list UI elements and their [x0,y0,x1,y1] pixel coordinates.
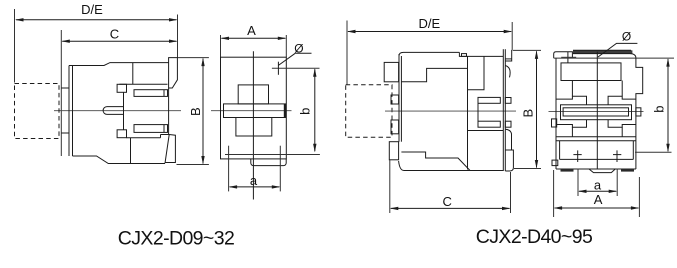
bottom inner box [559,141,561,160]
svg-text:a: a [594,177,602,192]
D/E extension lines (right) [346,21,348,85]
lower inner rect [236,118,272,137]
dimension B (left) line [201,58,204,165]
dimension D/E (left) line [15,18,178,21]
coil terminal block upper-left [384,62,398,81]
lower stair left [571,127,573,137]
upper stair left [571,81,573,97]
top shaded band [573,50,632,53]
band line lower [556,140,636,142]
b bottom extension line [225,154,320,156]
lower terminal strip [134,125,168,133]
terminal inner vertical [477,103,479,121]
clip screw lower [505,121,511,127]
upper strip divider [163,90,165,97]
extension line left of C / back plate edge [60,30,62,156]
bar thick right edge [284,104,286,118]
centerline through left side and front views [54,110,181,112]
A extension lines [220,35,222,57]
mounting hole tick [277,62,279,75]
front view (right) [552,43,675,172]
lower stair right [621,127,623,137]
svg-text:b: b [652,105,667,112]
inner vertical cover edge [132,63,134,85]
b bottom extension (right) [635,151,672,153]
diameter leader underline [295,52,311,54]
small top tab [462,54,467,57]
bottom feet tabs [561,169,574,172]
left small tab [552,119,557,127]
svg-text:Ø: Ø [294,42,303,56]
a extension lines (right) [577,169,579,197]
top band outline with rounded right corner [573,54,636,59]
vertical link between clamps [123,92,125,130]
small left block lower-mid [391,120,399,134]
top-left hole tick [567,52,569,63]
clip screw upper [505,98,511,104]
dimension A (right) line [554,206,640,209]
dimension A (left) line [221,37,287,40]
bottom shelf line [401,152,470,171]
upper clamp square [117,84,126,92]
rail clip bottom foot [505,150,513,171]
diameter leader diagonal [278,53,295,65]
terminal zone bottom line (right view) [468,130,503,132]
B bottom extension (right) [514,168,541,170]
bottom outline [73,156,166,164]
svg-text:Ø: Ø [622,29,631,43]
dashed mounting box (left side view) [15,84,60,139]
svg-text:B: B [188,107,203,116]
bottom hanging foot of front view [251,159,286,166]
svg-text:B: B [521,109,536,118]
bottom hole mark left [573,154,581,156]
dimension C (left) line [61,40,177,43]
hole mark for diameter leader [597,52,599,63]
back plate tick upper [61,87,69,89]
step to ear [160,135,162,138]
upper terminal strip (right view) [478,97,500,103]
top-left hole horizontal [561,56,576,58]
wide bar inner [563,108,628,116]
terminal zone top line [119,83,167,85]
a extension lines [228,146,230,192]
extension line right of D/E and C [177,15,179,58]
mounting hole mark horizontal / b top extension [272,67,320,69]
coil terminal oval [103,107,124,115]
lower strip divider [163,125,165,133]
svg-text:D/E: D/E [418,16,440,31]
outer box left edge [555,58,557,169]
center vertical line (right front view) [596,52,598,169]
centerline (right side view) [385,110,516,112]
svg-text:D/E: D/E [81,2,103,17]
wide bar outer [561,105,632,120]
top-left tab [554,52,573,58]
lower terminal strip (right view) [478,121,500,127]
band line upper [556,136,636,138]
svg-text:CJX2-D40~95: CJX2-D40~95 [476,226,593,248]
svg-text:C: C [443,194,452,209]
left lower tab [552,160,558,166]
svg-text:A: A [247,23,256,38]
dimension a (left) line [229,185,281,188]
B top extension line [178,57,209,59]
bottom outline [399,161,504,171]
back plate tick lower [61,132,69,134]
outer box bottom [556,168,636,170]
mounting plate double edge [502,49,504,171]
upper stair right [621,81,623,97]
lower clamp square [117,130,126,138]
svg-text:A: A [594,192,603,207]
extension line left of D/E [14,9,16,83]
B top extension (right) [513,49,541,51]
right small tab [636,108,641,116]
front cover vertical [467,56,469,169]
left face double edge [398,54,400,142]
upper inner rect [238,85,268,104]
front view outer box (left) [221,57,287,159]
bottom-left block [389,142,398,160]
svg-text:CJX2-D09~32: CJX2-D09~32 [118,228,234,250]
rounded top-left corner and top edge [399,52,459,56]
side view body outline (left) [61,58,177,164]
dimension a (right) line [578,190,617,193]
top step down [459,52,503,56]
front flange top-right [169,58,178,88]
C extension lines (right) [389,160,391,213]
dashed mounting box (right side view) [346,85,392,138]
svg-text:C: C [110,27,119,42]
side view body outline (right) [384,49,513,171]
rail clip lower hook curve [505,129,511,150]
dimension D/E (right) line [347,30,512,33]
dimension b (left) line [313,68,316,152]
B bottom extension line [177,164,209,166]
dimension C (right) line [390,207,511,210]
svg-text:b: b [298,108,313,115]
rail clip top hook [505,50,511,61]
bottom-right ear [161,135,176,163]
outer box right edge with bulge [636,58,643,169]
dimension B (right) line [535,50,538,168]
front view vertical centerline [252,51,254,199]
inner bottom vertical [130,138,132,164]
upper terminal strip [134,90,168,97]
rail clip top spring curve [505,66,510,78]
right block left edge [468,56,484,89]
bottom center dip [589,169,615,173]
top edge with chamfer [69,63,169,66]
top edge line / b top extension [554,57,674,59]
terminal zone bottom line [127,137,161,139]
middle wide bar [224,104,286,118]
dimension b (right) line [666,58,669,152]
inner top rectangle [561,63,621,81]
inner step line [401,68,467,81]
small left block mid [391,95,399,104]
front face vertical [168,88,170,135]
back plate double edge [68,66,70,157]
svg-text:a: a [250,173,258,188]
centerline (right front view) [549,110,644,112]
diameter leader diagonal (right) [598,43,637,57]
A extension lines (right) [553,170,555,217]
bottom hole mark right [613,154,621,156]
